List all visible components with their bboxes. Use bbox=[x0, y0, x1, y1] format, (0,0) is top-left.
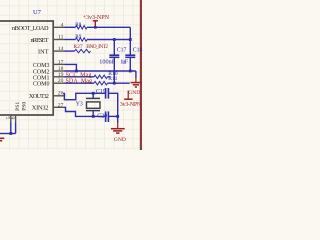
junction PS rail bbox=[9, 132, 12, 135]
svg-text:27: 27 bbox=[58, 102, 64, 108]
svg-text:+3v3-NPN: +3v3-NPN bbox=[83, 14, 110, 21]
junction GND-B bbox=[116, 115, 119, 118]
wire pin14 INT bbox=[65, 50, 75, 52]
svg-text:C19: C19 bbox=[96, 89, 106, 95]
junction crystal top bbox=[92, 92, 95, 95]
power port +3v3-NPN bbox=[94, 21, 96, 27]
wire R8 to corner bbox=[87, 26, 130, 28]
capacitor C18 bbox=[129, 40, 131, 55]
svg-text:COM0: COM0 bbox=[33, 82, 50, 88]
wire pin26 XOUT32 with jog bbox=[63, 93, 105, 99]
svg-text:XIN32: XIN32 bbox=[32, 105, 49, 112]
svg-text:20: 20 bbox=[58, 78, 64, 84]
pin 20 bbox=[53, 82, 65, 84]
svg-text:3v3-NPN: 3v3-NPN bbox=[120, 101, 142, 108]
svg-text:R27: R27 bbox=[73, 44, 83, 50]
capacitor C17 bbox=[113, 40, 115, 55]
svg-text:11: 11 bbox=[58, 35, 64, 41]
pin 14 bbox=[53, 50, 65, 52]
svg-text:Y3: Y3 bbox=[76, 102, 83, 108]
pin 4 bbox=[53, 26, 65, 28]
pin 11 bbox=[53, 39, 65, 41]
sheet border (right edge) bbox=[140, 0, 142, 150]
svg-text:SDA_Mag: SDA_Mag bbox=[66, 79, 93, 85]
wire pin20 SDA row bbox=[65, 82, 95, 84]
svg-text:PS0: PS0 bbox=[21, 102, 27, 111]
svg-text:100nF: 100nF bbox=[99, 59, 116, 66]
wire C20 right bbox=[108, 115, 117, 117]
junction C17 bottom bbox=[113, 82, 116, 85]
pin 5 (bottom) bbox=[10, 115, 12, 123]
svg-text:XOUT32: XOUT32 bbox=[29, 93, 49, 100]
pin 19 bbox=[53, 76, 65, 78]
junction C18 bottom bbox=[129, 70, 132, 73]
svg-text:PS1: PS1 bbox=[15, 102, 21, 111]
svg-text:INT: INT bbox=[38, 49, 49, 56]
junction crystal bottom bbox=[92, 115, 95, 118]
resistor R9 bbox=[76, 38, 88, 42]
junction COM3/COM2 bbox=[75, 70, 78, 73]
resistor R11 bbox=[94, 81, 107, 85]
wire R9 to corner bbox=[87, 39, 130, 41]
pin 26 bbox=[53, 95, 64, 97]
svg-text:R8: R8 bbox=[75, 22, 81, 28]
power port 3v3-NPN (pointing down) bbox=[127, 91, 129, 99]
svg-text:6: 6 bbox=[11, 116, 17, 119]
svg-text:26: 26 bbox=[58, 91, 64, 97]
pin 27 bbox=[53, 106, 65, 108]
wire PS1/PS0 to rail bbox=[10, 123, 12, 134]
svg-text:nRESET: nRESET bbox=[31, 37, 49, 44]
wire pin17 COM3 with corner down bbox=[65, 64, 77, 71]
pin 17 bbox=[53, 63, 65, 65]
wire C19 right corner down bbox=[108, 93, 117, 116]
svg-text:C18: C18 bbox=[133, 47, 143, 53]
svg-text:C17: C17 bbox=[117, 47, 127, 53]
resistor R8 bbox=[76, 26, 88, 30]
wire 3v3 corner down bbox=[129, 27, 131, 39]
svg-text:nBOOT_LOAD: nBOOT_LOAD bbox=[12, 25, 49, 32]
pin 6 (bottom) bbox=[15, 115, 17, 123]
svg-text:R9: R9 bbox=[75, 34, 81, 40]
wire pin27 XIN32 staircase bbox=[65, 107, 106, 116]
svg-text:COM1: COM1 bbox=[33, 75, 50, 81]
svg-text:GND: GND bbox=[114, 137, 126, 143]
sheet background bbox=[0, 0, 143, 150]
pin 18 bbox=[53, 70, 65, 72]
ground GND-B bbox=[117, 116, 119, 123]
junction rail/C17 bbox=[113, 38, 116, 41]
svg-text:17: 17 bbox=[58, 59, 64, 65]
svg-text:GND: GND bbox=[128, 90, 140, 96]
svg-text:4: 4 bbox=[61, 22, 64, 28]
junction power stem bbox=[94, 26, 97, 29]
wire R10 right bbox=[108, 76, 111, 78]
svg-text:14: 14 bbox=[58, 46, 64, 52]
wire pin19 SCL row bbox=[65, 76, 95, 78]
svg-text:R11: R11 bbox=[108, 76, 117, 82]
svg-text:COM3: COM3 bbox=[33, 63, 50, 69]
svg-text:BNO_INT2: BNO_INT2 bbox=[86, 44, 108, 50]
svg-text:U7: U7 bbox=[33, 9, 42, 16]
ground fragment bottom-left bbox=[0, 137, 4, 139]
svg-text:SCL_Mag: SCL_Mag bbox=[66, 72, 92, 78]
svg-text:1uF: 1uF bbox=[120, 59, 128, 66]
junction rail/3v3 bbox=[129, 38, 132, 41]
ground GND-A bbox=[135, 71, 137, 78]
resistor R10 bbox=[94, 75, 107, 79]
wire pin11 nRESET rail bbox=[65, 39, 76, 41]
wire R11 right to GND bars bbox=[108, 82, 130, 84]
svg-text:19: 19 bbox=[58, 72, 64, 78]
wire pin18 COM2 row to GND bbox=[65, 70, 136, 72]
wire pin4 row bbox=[65, 26, 76, 28]
resistor R27 bbox=[75, 49, 91, 53]
IC U7 body bbox=[0, 21, 53, 115]
